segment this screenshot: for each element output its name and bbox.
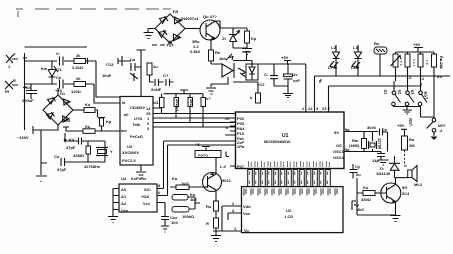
resistor Rb2 Q2 <box>206 218 219 235</box>
wire: left vertical main <box>24 53 26 127</box>
svg-text:D1: D1 <box>60 91 66 96</box>
capacitor Cn <box>55 75 63 93</box>
svg-text:32768Hz: 32768Hz <box>84 164 100 169</box>
+5V rail mid <box>258 63 306 65</box>
rail A <box>315 75 451 77</box>
power tap mid <box>137 50 146 97</box>
svg-text:x?: x? <box>206 96 211 101</box>
button S1 <box>383 81 401 106</box>
ground U4 <box>108 217 118 223</box>
wires opto <box>233 61 258 94</box>
svg-text:Kp: Kp <box>106 119 112 124</box>
svg-text:+5: +5 <box>195 142 200 147</box>
dashed enclosure top edge <box>16 9 173 47</box>
svg-text:P: P <box>13 52 16 57</box>
svg-text:1Pa: 1Pa <box>237 144 245 149</box>
svg-text:SxNF: SxNF <box>151 87 162 92</box>
svg-text:120Ω: 120Ω <box>71 89 82 94</box>
ground opto-left <box>206 88 216 94</box>
svg-text:Rn: Rn <box>215 50 221 55</box>
ground BR2 <box>144 29 156 39</box>
U1 left pin stubs <box>225 118 236 166</box>
input jack J2 <box>5 78 18 94</box>
svg-text:30x0: 30x0 <box>367 125 377 130</box>
wire osc bottom <box>344 151 381 153</box>
ground C-u4 <box>161 226 169 232</box>
svg-text:LPG: LPG <box>328 65 336 70</box>
svg-text:A2: A2 <box>121 201 127 206</box>
resistor Ku 1k base <box>170 176 208 190</box>
resistor Kp1 <box>98 118 112 132</box>
ground buttons <box>393 106 420 114</box>
svg-text:C:: C: <box>56 51 60 56</box>
wire to Kp <box>95 110 98 117</box>
svg-text:0u: 0u <box>356 172 361 177</box>
svg-text:10uF: 10uF <box>102 73 112 78</box>
resistor Rt2 <box>405 52 412 81</box>
svg-text:0.5k0: 0.5k0 <box>190 49 201 54</box>
svg-text:1N4: 1N4 <box>63 118 71 123</box>
svg-text:4k0: 4k0 <box>357 207 364 212</box>
svg-text:Vss: Vss <box>243 211 251 216</box>
antenna tap <box>242 52 251 61</box>
bus wires U3 to U1 <box>153 108 236 127</box>
svg-text:Ca: Ca <box>130 57 136 62</box>
svg-text:2x: 2x <box>293 72 298 77</box>
svg-text:OS: OS <box>336 143 342 148</box>
IC U4 <box>119 184 157 213</box>
svg-text:104: 104 <box>171 220 178 225</box>
svg-text:+5V: +5V <box>281 55 289 60</box>
resistor Rt3 <box>418 52 425 81</box>
svg-text:Ku: Ku <box>85 102 91 107</box>
diode D speaker 1N4148 <box>376 156 400 178</box>
svg-text:RST.: RST. <box>408 118 414 127</box>
wire mains drop <box>36 130 47 182</box>
svg-text:330Ω: 330Ω <box>361 197 372 202</box>
svg-text:kΩ: kΩ <box>153 100 159 105</box>
top-right rail <box>396 51 435 53</box>
wires pullups <box>188 197 200 209</box>
label dots top-right cluster <box>401 58 441 67</box>
bridge rectifier BR2 <box>155 9 199 43</box>
svg-text:Kw: Kw <box>41 66 48 71</box>
svg-text:47pF: 47pF <box>66 145 76 150</box>
svg-text:SCl: SCl <box>144 187 151 192</box>
svg-text:Co: Co <box>54 154 60 159</box>
svg-text:LCD: LCD <box>285 214 293 219</box>
resistor R 2.2k <box>72 53 86 70</box>
svg-text:20: 20 <box>225 116 230 121</box>
wire row1 <box>25 58 94 64</box>
svg-text:2k: 2k <box>76 76 81 81</box>
diode Kw <box>41 61 58 84</box>
svg-text:xxF: xxF <box>293 78 300 83</box>
svg-text:1k0: 1k0 <box>219 56 226 61</box>
svg-text:Ru: Ru <box>409 137 415 142</box>
svg-text:OSC2: OSC2 <box>333 155 345 160</box>
svg-text:(1M0): (1M0) <box>349 143 360 148</box>
svg-text:2kΩx3: 2kΩx3 <box>175 99 180 112</box>
capacitor C7 <box>55 51 63 72</box>
svg-text:L.3: L.3 <box>220 164 227 169</box>
svg-text:C13: C13 <box>106 62 114 67</box>
resistor Rk <box>245 28 257 48</box>
svg-text:23: 23 <box>322 106 327 111</box>
capacitor Co xtal2 <box>54 148 105 173</box>
photo detector box U5 <box>238 61 258 81</box>
bus corner down <box>164 141 236 145</box>
resistor RP3 <box>188 94 194 123</box>
LCD left wires <box>213 206 242 231</box>
svg-text:no?u: no?u <box>198 153 208 158</box>
wire BR2 to Q1 <box>185 28 200 30</box>
svg-text:KxPxOx: KxPxOx <box>131 176 147 181</box>
LED L2 <box>328 45 340 76</box>
svg-text:Zt: Zt <box>222 36 226 41</box>
svg-text:Ku: Ku <box>363 185 369 190</box>
cap near LCD right <box>350 164 362 179</box>
svg-text:U4: U4 <box>121 176 127 181</box>
capacitors C15 C16 <box>150 73 174 92</box>
LED L3 <box>351 45 362 76</box>
input jack J1 <box>6 52 18 69</box>
ground osc <box>378 160 389 165</box>
thermistor Rn top <box>374 41 387 76</box>
resistor pullup SCL <box>172 207 195 220</box>
svg-text:Y: Y <box>110 149 113 154</box>
opto emitter branch from regulator <box>211 62 220 65</box>
resistor Rt4 <box>432 52 445 117</box>
resistor RP2 <box>174 94 180 118</box>
IC U1 MCU <box>236 106 345 169</box>
svg-text:2k: 2k <box>76 53 81 58</box>
svg-text:A1: A1 <box>121 194 127 199</box>
zener ZD <box>222 28 247 48</box>
verticals to MCU top <box>306 64 329 112</box>
resistor Rb Q3 <box>357 185 387 202</box>
button S4 <box>421 107 446 141</box>
LCD U2 <box>242 187 344 233</box>
svg-text:5a: 5a <box>345 127 350 132</box>
svg-text:2.2kΩ: 2.2kΩ <box>72 65 84 70</box>
svg-text:R: R <box>206 221 209 226</box>
svg-text:32MΩ: 32MΩ <box>73 153 85 158</box>
header pin numbers <box>249 172 327 185</box>
svg-text:LED: LED <box>351 65 359 70</box>
svg-text:4k3: 4k3 <box>190 197 197 202</box>
pot RV1 <box>391 52 401 81</box>
ground Rk <box>242 49 252 55</box>
svg-text:~220V: ~220V <box>17 135 29 140</box>
wire U3 left pins <box>93 61 120 97</box>
svg-text:A0: A0 <box>121 187 127 192</box>
svg-text:47pF: 47pF <box>57 167 67 172</box>
wire Q1 collector right <box>218 21 247 28</box>
svg-text:Vcc: Vcc <box>143 201 151 206</box>
svg-text:9012: 9012 <box>222 178 232 183</box>
svg-text:9G: 9G <box>402 185 407 190</box>
svg-text:1N4007x4: 1N4007x4 <box>180 16 199 21</box>
svg-text:D5: D5 <box>173 9 179 14</box>
svg-text::C2: :C2 <box>258 82 265 87</box>
resistor 2k vert <box>147 63 158 82</box>
capacitor Cu xtal <box>65 137 105 150</box>
long verticals to U4 <box>164 141 168 196</box>
resistor Ru reset <box>402 136 416 150</box>
resistor RP1 <box>153 94 164 114</box>
pullup rail <box>164 90 204 94</box>
svg-text:PXC2 6: PXC2 6 <box>122 158 137 163</box>
U4 right pins <box>157 189 168 211</box>
crystal Y2 <box>369 132 383 152</box>
svg-text:3C4: 3C4 <box>402 191 410 196</box>
wire osc top <box>344 131 378 133</box>
svg-text:Kn: Kn <box>437 74 443 79</box>
svg-text:Kp: Kp <box>251 36 257 41</box>
svg-text:Mt.2: Mt.2 <box>414 182 423 187</box>
U4 left pins <box>113 189 119 217</box>
bridge rectifier BR1 <box>43 91 73 125</box>
svg-text:+5V: +5V <box>413 42 421 47</box>
U1 bottom pin labels <box>249 161 330 167</box>
svg-text:2M: 2M <box>409 143 415 148</box>
wire speaker to Q3 <box>395 177 408 179</box>
resistor Rm <box>349 132 367 152</box>
svg-text:a0: a0 <box>124 112 129 117</box>
svg-text:U?D: U?D <box>134 116 142 121</box>
svg-text:C?: C? <box>163 73 169 78</box>
svg-text:OSC1: OSC1 <box>333 149 345 154</box>
svg-text:+DA: +DA <box>141 194 149 199</box>
wire bridge right output <box>73 109 84 111</box>
speaker SP <box>408 166 423 188</box>
wire base net <box>357 178 396 215</box>
dashed link to speaker <box>405 150 409 166</box>
svg-text:km: km <box>121 128 127 133</box>
svg-text:Rn 20k: Rn 20k <box>439 56 444 70</box>
cap C-u4 <box>161 210 178 226</box>
ground mid caps <box>274 86 293 98</box>
capacitor C3 <box>284 64 301 86</box>
ground Q3 <box>391 216 401 222</box>
svg-text:Cn: Cn <box>56 75 62 80</box>
LCD top pin marks <box>244 189 337 196</box>
svg-text:Ru: Ru <box>206 204 212 209</box>
arrow down node <box>64 133 66 142</box>
resistor Ropt <box>250 93 261 103</box>
resistor Ra Q2 <box>206 201 219 218</box>
button S2 <box>397 81 414 106</box>
wire row3 <box>63 127 120 131</box>
svg-text:P07: P07 <box>237 164 245 169</box>
mode box <box>195 142 229 158</box>
rail B <box>329 83 422 86</box>
wire bridge bottom to mains <box>25 125 59 134</box>
button S3 <box>410 76 429 106</box>
wire bridge top <box>57 88 59 95</box>
crystal Y1 <box>96 148 113 156</box>
resistor Re Q1 <box>209 39 227 61</box>
junction marks <box>23 58 27 88</box>
svg-text:Vdd: Vdd <box>243 204 251 209</box>
transistor Q1 <box>200 14 220 40</box>
resistor Ku2 <box>83 124 95 133</box>
svg-text:PxCxD: PxCxD <box>130 134 143 139</box>
svg-text:22: 22 <box>308 106 313 111</box>
svg-text:R: R <box>13 78 16 83</box>
cap osc gnd <box>372 152 385 164</box>
svg-text:Cy: Cy <box>355 164 361 169</box>
svg-text:Ku: Ku <box>172 176 178 181</box>
resistor Ku1 <box>84 102 95 113</box>
resistor RP4 <box>201 94 211 127</box>
svg-text:Ku: Ku <box>85 124 91 129</box>
svg-text:C:: C: <box>264 72 268 77</box>
svg-text:U2: U2 <box>286 208 292 213</box>
capacitor C13 <box>102 56 131 78</box>
U3 ground <box>136 165 146 178</box>
svg-text:D3k: D3k <box>133 122 141 127</box>
svg-text:1N4149: 1N4149 <box>376 171 391 176</box>
svg-text:CD4069: CD4069 <box>130 105 145 110</box>
svg-text:2u: 2u <box>153 64 158 69</box>
svg-text:XXCMXX: XXCMXX <box>122 150 139 155</box>
svg-text:Ru: Ru <box>374 41 380 46</box>
wire row2 <box>25 83 94 85</box>
svg-text:kl: kl <box>122 100 125 105</box>
svg-text:2kΩ: 2kΩ <box>189 99 194 107</box>
capacitor C1 <box>258 64 278 87</box>
wire: top horizontal <box>25 46 88 48</box>
capacitor C14 <box>130 57 141 81</box>
resistor R 120 <box>71 76 86 94</box>
ground Q2 <box>211 236 221 242</box>
IR LED D-ir <box>211 54 234 87</box>
svg-text:U3: U3 <box>127 144 133 149</box>
cap osc top <box>367 125 388 152</box>
capacitor Cao 220uF <box>22 84 37 103</box>
svg-text:C10: C10 <box>24 85 32 90</box>
svg-text:32768: 32768 <box>377 138 383 150</box>
IC U3 <box>120 97 153 166</box>
wire xtal links <box>88 141 105 162</box>
svg-text:+5V: +5V <box>397 123 405 128</box>
svg-text:100kΩ: 100kΩ <box>182 214 195 219</box>
resistor pullup SDA <box>172 192 197 202</box>
transistor Q3 <box>381 178 410 215</box>
svg-text:Vo: Vo <box>244 228 249 233</box>
resistor Ry <box>73 146 91 158</box>
header pin boxes <box>248 170 331 187</box>
svg-text:MC9S08AW16: MC9S08AW16 <box>264 139 291 144</box>
svg-text:Vss: Vss <box>121 208 129 213</box>
svg-text:5V: 5V <box>334 130 339 135</box>
svg-text:220uF: 220uF <box>22 98 34 103</box>
svg-text:RI: RI <box>5 89 9 94</box>
transistor Q2 9012 <box>203 158 232 202</box>
svg-text:Qu 4??: Qu 4?? <box>203 14 217 19</box>
